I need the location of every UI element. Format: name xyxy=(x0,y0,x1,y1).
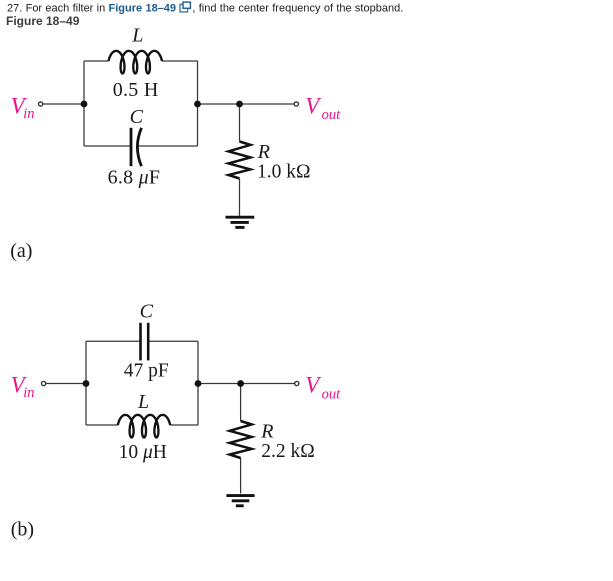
svg-text:V: V xyxy=(305,93,322,118)
svg-text:0.5 H: 0.5 H xyxy=(113,79,159,101)
svg-text:out: out xyxy=(322,107,342,123)
svg-text:47 pF: 47 pF xyxy=(124,360,169,381)
svg-text:10 μH: 10 μH xyxy=(119,442,167,463)
svg-text:L: L xyxy=(137,391,149,413)
svg-text:1.0 kΩ: 1.0 kΩ xyxy=(257,162,311,183)
svg-text:2.2 kΩ: 2.2 kΩ xyxy=(261,441,315,462)
svg-text:in: in xyxy=(23,385,34,401)
svg-text:R: R xyxy=(260,420,273,442)
svg-text:L: L xyxy=(131,25,143,47)
svg-text:in: in xyxy=(23,106,34,122)
svg-text:V: V xyxy=(305,373,322,398)
svg-text:(b): (b) xyxy=(11,518,34,540)
svg-text:6.8 μF: 6.8 μF xyxy=(108,167,161,189)
svg-text:out: out xyxy=(322,386,342,402)
svg-text:R: R xyxy=(257,141,270,163)
svg-text:C: C xyxy=(140,301,154,323)
svg-text:(a): (a) xyxy=(10,240,32,262)
svg-text:C: C xyxy=(130,106,144,128)
